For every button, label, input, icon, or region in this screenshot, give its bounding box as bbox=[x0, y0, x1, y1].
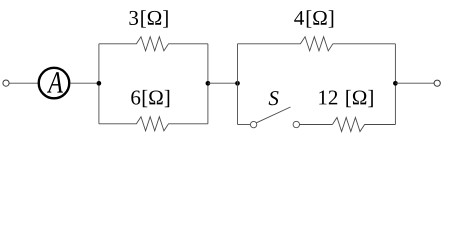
switch S left contact bbox=[250, 121, 256, 127]
left terminal bbox=[3, 80, 9, 86]
label [ohm] of 4 bbox=[307, 10, 312, 27]
wire: switch to resistor bbox=[300, 124, 333, 126]
label 3 bbox=[129, 11, 138, 25]
label 6 bbox=[131, 90, 140, 104]
node C junction dot bbox=[206, 81, 211, 86]
label 4 bbox=[294, 11, 304, 25]
wire: right block left vertical bbox=[237, 44, 239, 125]
wire: between blocks bbox=[208, 82, 238, 84]
node B junction dot bbox=[97, 81, 102, 86]
switch S lever bbox=[256, 107, 290, 123]
right terminal bbox=[434, 80, 440, 86]
wire: left block right vertical bbox=[207, 44, 209, 124]
wire: to right terminal bbox=[395, 82, 434, 84]
node E junction dot bbox=[393, 81, 398, 86]
label [ohm] of 12 bbox=[346, 90, 351, 107]
label S bbox=[269, 91, 279, 105]
wire: right block right vertical bbox=[394, 44, 396, 125]
wire: to switch bbox=[238, 124, 251, 126]
resistor 12 ohm (bottom right branch) bbox=[332, 117, 395, 131]
wire: ammeter to node B bbox=[71, 82, 99, 84]
wire: left block left vertical bbox=[98, 44, 100, 124]
resistor 4 ohm (top right branch) bbox=[238, 37, 396, 51]
switch S right contact bbox=[293, 121, 299, 127]
wire: terminal to ammeter bbox=[9, 82, 38, 84]
ammeter label A bbox=[47, 72, 63, 92]
resistor 3 ohm (top left branch) bbox=[99, 37, 208, 51]
label 12 bbox=[319, 91, 326, 105]
label [ohm] of 3 bbox=[141, 10, 146, 27]
node D junction dot bbox=[235, 81, 240, 86]
label [ohm] of 6 bbox=[143, 90, 148, 107]
ammeter A bbox=[39, 68, 70, 99]
resistor 6 ohm (bottom left branch) bbox=[99, 117, 208, 131]
